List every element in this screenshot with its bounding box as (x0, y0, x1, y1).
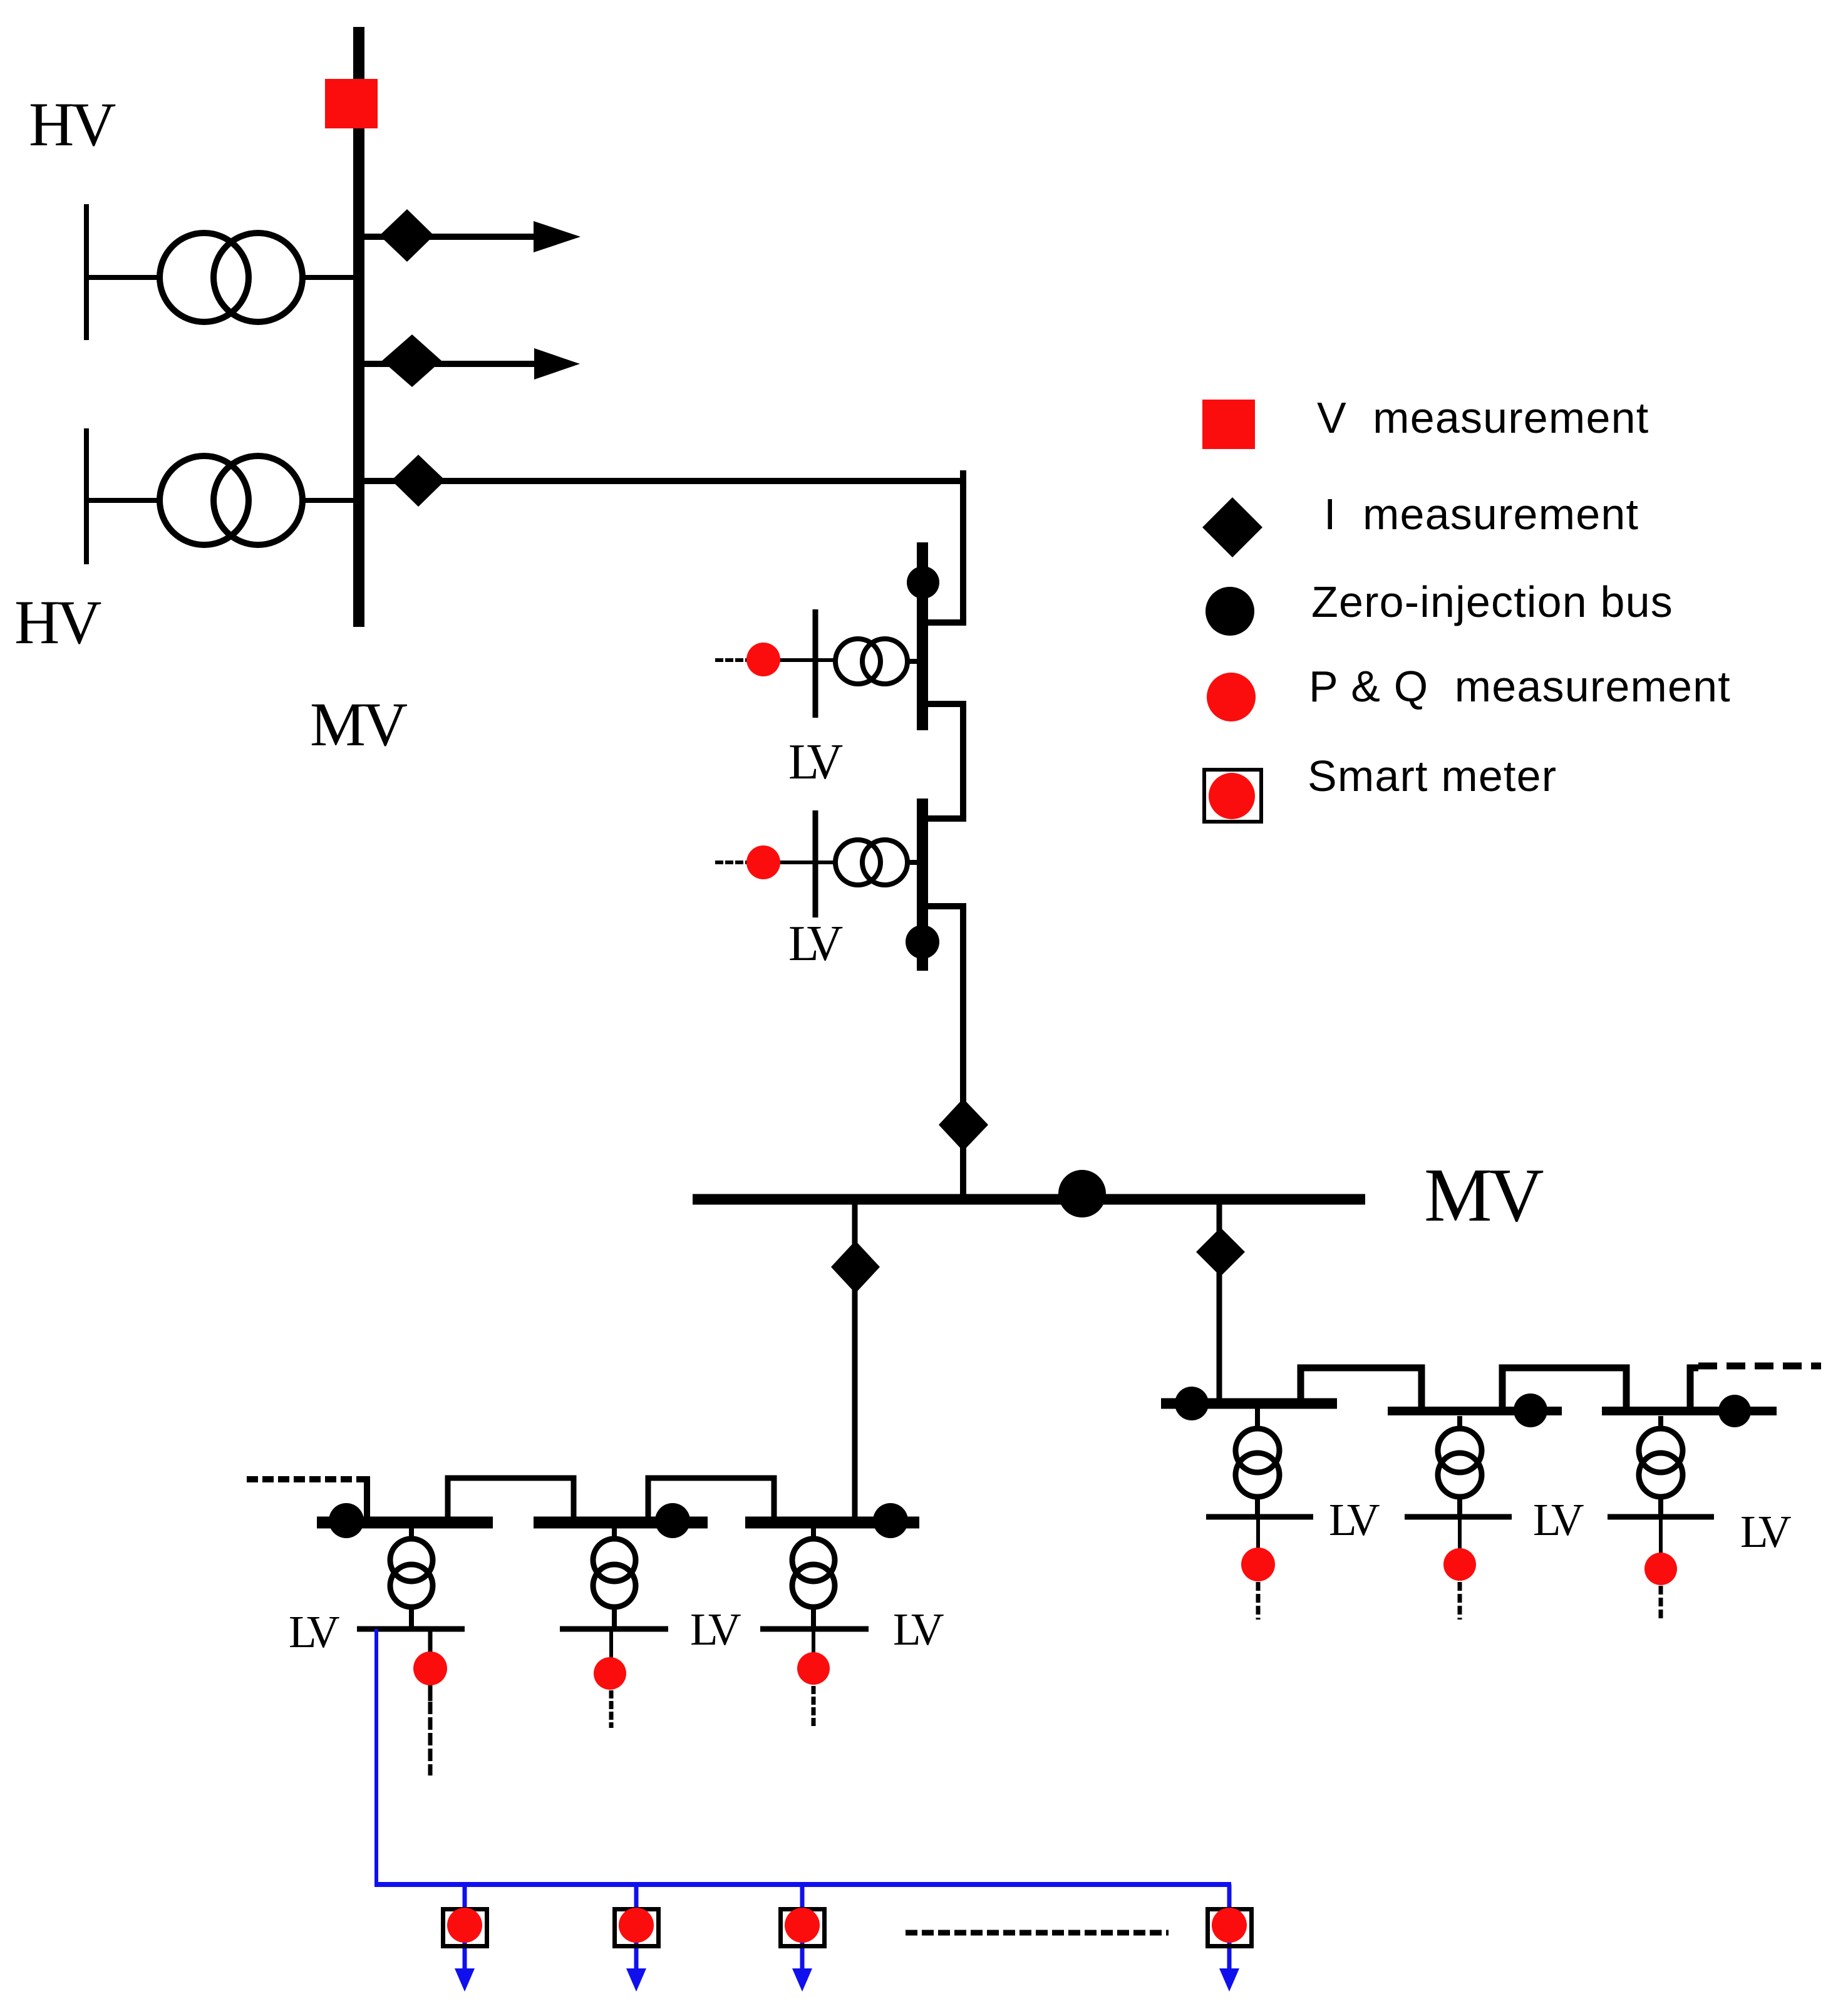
svg-text:LV: LV (1740, 1506, 1791, 1557)
svg-text:MV: MV (310, 690, 408, 759)
svg-text:I measurement: I measurement (1324, 490, 1639, 539)
svg-text:LV: LV (893, 1604, 944, 1655)
svg-text:LV: LV (1329, 1494, 1380, 1545)
svg-text:LV: LV (788, 916, 843, 971)
svg-text:LV: LV (1533, 1494, 1584, 1545)
svg-text:HV: HV (29, 90, 116, 159)
svg-text:V measurement: V measurement (1317, 393, 1649, 442)
svg-text:LV: LV (788, 735, 843, 790)
svg-text:Smart meter: Smart meter (1308, 752, 1557, 800)
svg-text:Zero-injection bus: Zero-injection bus (1311, 577, 1673, 626)
svg-text:MV: MV (1424, 1153, 1543, 1238)
svg-text:P & Q measurement: P & Q measurement (1309, 662, 1731, 711)
svg-text:LV: LV (690, 1604, 741, 1655)
svg-text:HV: HV (14, 587, 101, 657)
svg-text:LV: LV (289, 1606, 339, 1657)
